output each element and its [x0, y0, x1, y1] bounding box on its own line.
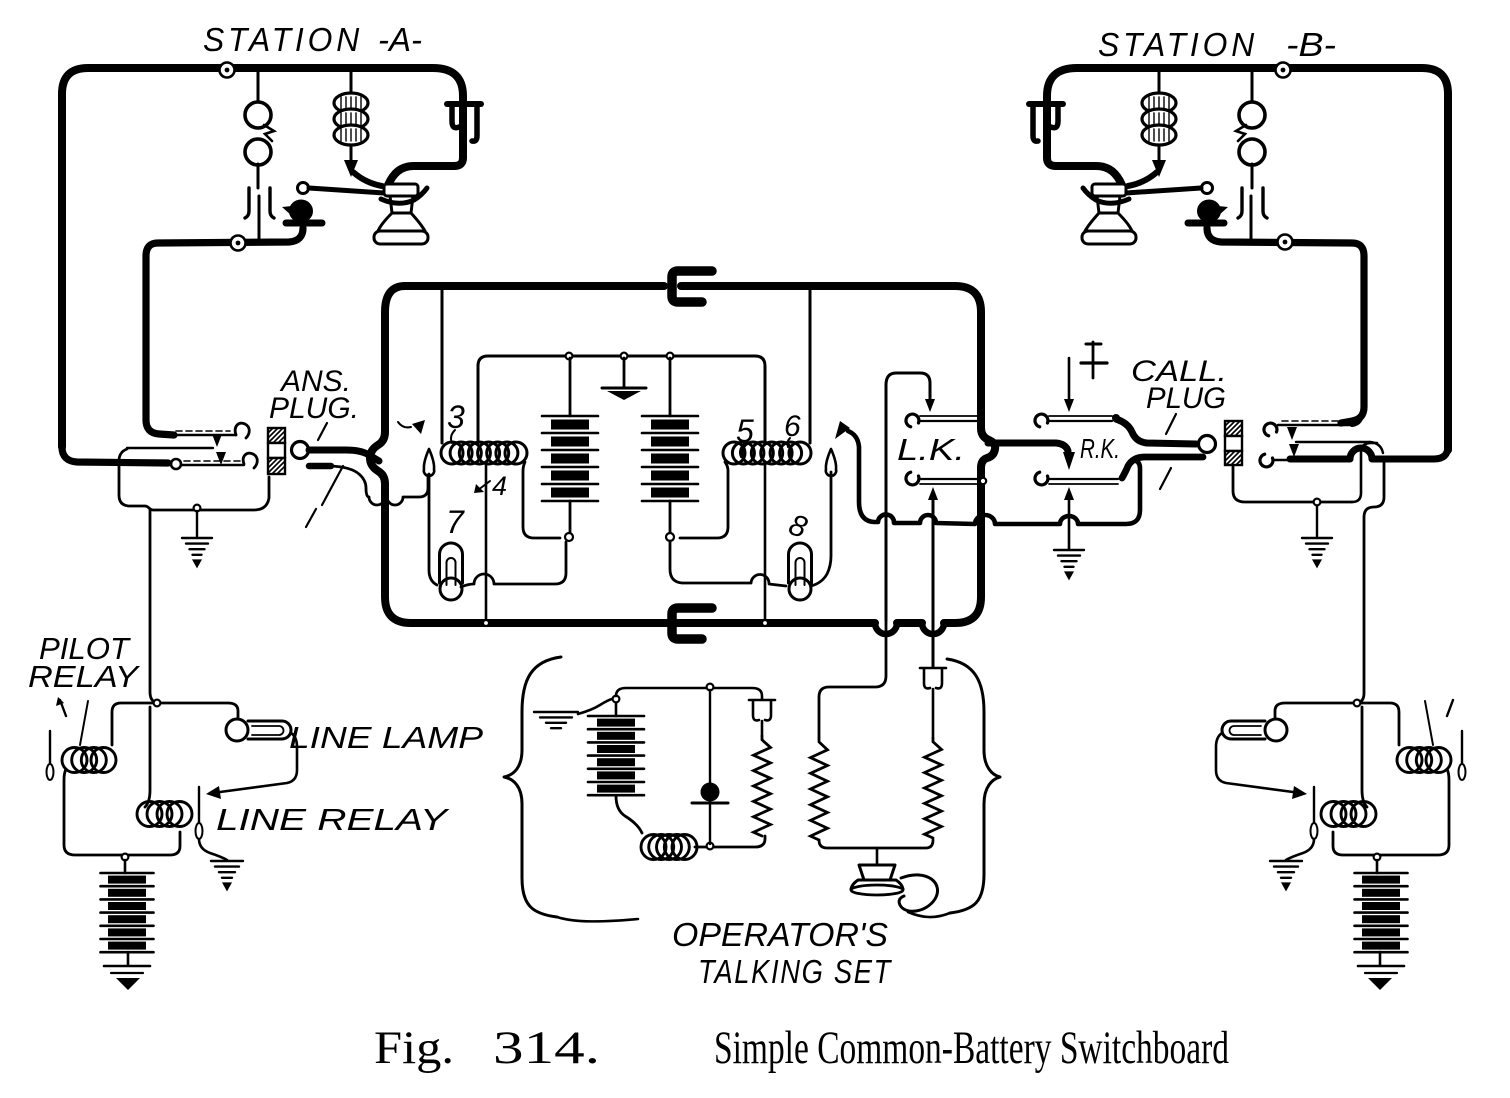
- svg-text:5: 5: [736, 413, 754, 449]
- svg-text:7: 7: [446, 504, 465, 540]
- svg-text:L.K.: L.K.: [897, 432, 965, 467]
- svg-text:R.K.: R.K.: [1080, 433, 1120, 464]
- svg-text:PLUG.: PLUG.: [269, 392, 359, 425]
- svg-text:LINE LAMP: LINE LAMP: [289, 720, 483, 755]
- svg-text:LINE RELAY: LINE RELAY: [216, 802, 450, 837]
- svg-text:Simple Common-Battery Switchbo: Simple Common-Battery Switchboard: [714, 1022, 1229, 1074]
- svg-text:RELAY: RELAY: [28, 659, 141, 694]
- svg-text:-B-: -B-: [1286, 26, 1336, 63]
- svg-text:4: 4: [492, 471, 507, 501]
- svg-text:3: 3: [447, 399, 465, 435]
- svg-text:STATION: STATION: [203, 21, 363, 58]
- svg-text:OPERATOR'S: OPERATOR'S: [672, 916, 888, 953]
- svg-text:STATION: STATION: [1098, 26, 1258, 63]
- svg-text:314.: 314.: [493, 1022, 600, 1074]
- svg-text:PLUG: PLUG: [1146, 382, 1226, 415]
- svg-text:-A-: -A-: [378, 21, 422, 58]
- svg-text:Fig.: Fig.: [374, 1022, 454, 1074]
- svg-text:6: 6: [784, 410, 801, 443]
- svg-text:TALKING SET: TALKING SET: [698, 953, 893, 990]
